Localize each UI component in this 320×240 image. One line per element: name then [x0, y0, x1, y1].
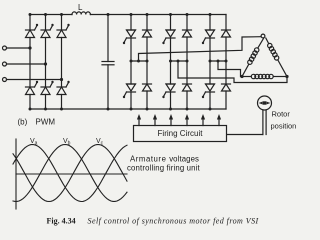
svg-text:PWM: PWM — [36, 118, 56, 127]
node: phase 2 tap — [44, 62, 47, 65]
rectifier leg 2 wire — [45, 15, 47, 31]
svg-text:Armature voltages: Armature voltages — [130, 155, 199, 164]
wire: phase A output to motor apex — [139, 37, 262, 61]
rectifier leg 1 wire — [29, 15, 31, 31]
wire: phase 1 input — [7, 47, 31, 49]
thyristor inverter T1 bottom — [123, 84, 136, 98]
svg-text:Rotor: Rotor — [272, 110, 291, 119]
wire: phase 2 input — [7, 63, 46, 65]
node: top rail junctions — [29, 13, 212, 16]
svg-text:L: L — [78, 3, 83, 12]
terminal: AC input phase 3 — [3, 78, 7, 82]
node: pair 2 midpoints — [169, 60, 189, 63]
node: pair 1 midpoints — [130, 60, 149, 63]
node: phase 3 tap — [60, 78, 63, 81]
node: pair 3 midpoints — [209, 60, 228, 63]
thyristor inverter T3 bottom — [202, 84, 215, 98]
wire: DC top rail left segment — [30, 14, 72, 16]
wire: sensor to firing circuit — [227, 134, 263, 136]
wire: phase C output to motor left corner — [218, 61, 242, 77]
thyristor rectifier top leg3 — [57, 24, 70, 38]
inverter leg T3 wire — [209, 15, 211, 31]
diode inverter D2 bottom — [183, 84, 192, 91]
wire: leg pair 1 midpoint link — [131, 60, 147, 62]
thyristor rectifier top leg2 — [41, 24, 54, 38]
waveform Va — [13, 145, 127, 202]
rectifier leg 3 wire — [61, 15, 63, 31]
diode inverter D3 top — [222, 30, 231, 37]
svg-text:Fig. 4.34: Fig. 4.34 — [47, 217, 76, 226]
svg-text:controlling firing unit: controlling firing unit — [127, 164, 200, 173]
svg-text:position: position — [271, 122, 297, 131]
wire: leg pair 3 midpoint link — [210, 60, 226, 62]
winding: motor right side — [266, 38, 287, 77]
wire: DC top rail right segment — [90, 14, 226, 16]
thyristor inverter T2 bottom — [162, 84, 175, 98]
node: motor left corner — [240, 75, 243, 78]
inverter leg D3 wire — [225, 15, 227, 31]
diode inverter D1 top — [143, 30, 152, 37]
node: bottom rail junctions — [29, 108, 212, 111]
svg-text:Self control of synchronous mo: Self control of synchronous motor fed fr… — [88, 217, 259, 226]
svg-text:(b): (b) — [18, 118, 28, 127]
node: motor right corner — [285, 75, 288, 78]
waveform Vb — [13, 145, 127, 202]
gate pulse arrow 6 — [217, 114, 221, 126]
terminal: AC input phase 1 — [3, 46, 7, 50]
node: phase 1 tap — [28, 46, 31, 49]
thyristor inverter T1 top — [123, 30, 136, 44]
svg-text:Firing Circuit: Firing Circuit — [158, 129, 204, 138]
inductor L — [72, 12, 90, 15]
diode inverter D1 bottom — [143, 84, 152, 91]
terminal: motor apex node — [261, 34, 265, 38]
thyristor rectifier bottom leg3 — [57, 81, 70, 95]
gate pulse arrow 1 — [137, 114, 141, 126]
gate pulse arrow 3 — [169, 114, 173, 126]
gate pulse arrow 2 — [153, 114, 157, 126]
inverter leg D1 wire — [146, 15, 148, 31]
inverter leg T2 wire — [170, 15, 172, 31]
inverter leg D2 wire — [186, 15, 188, 31]
rotor position sensor — [258, 96, 272, 110]
wire: DC bottom rail — [30, 108, 226, 110]
winding: motor bottom side — [242, 74, 287, 78]
diode inverter D2 top — [183, 30, 192, 37]
wire: phase 3 input — [7, 79, 62, 81]
firing circuit box — [134, 126, 227, 142]
waveform axes — [15, 139, 17, 209]
thyristor inverter T2 top — [162, 30, 175, 44]
thyristor inverter T3 top — [202, 30, 215, 44]
capacitor C (DC link) — [102, 15, 114, 110]
waveform Vc — [13, 145, 127, 202]
wire: sensor shaft double line — [262, 110, 264, 135]
gate pulse arrow 5 — [201, 114, 205, 126]
winding: motor left side — [242, 38, 264, 77]
inverter leg T1 wire — [130, 15, 132, 31]
wire: phase B output to motor right corner — [178, 61, 287, 83]
thyristor rectifier top leg1 — [26, 24, 39, 38]
thyristor rectifier bottom leg2 — [41, 81, 54, 95]
diode inverter D3 bottom — [222, 84, 231, 91]
terminal: AC input phase 2 — [3, 62, 7, 66]
gate pulse arrow 4 — [185, 114, 189, 126]
wire: leg pair 2 midpoint link — [171, 60, 188, 62]
thyristor rectifier bottom leg1 — [26, 81, 39, 95]
